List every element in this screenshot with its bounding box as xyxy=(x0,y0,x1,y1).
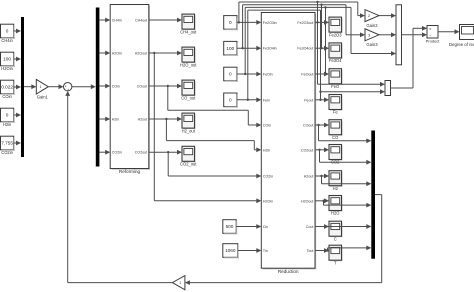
svg-text:CO2out: CO2out xyxy=(301,148,313,152)
svg-text:Feout: Feout xyxy=(304,98,313,102)
svg-text:H2Oin: H2Oin xyxy=(112,52,122,56)
svg-text:H2Oin: H2Oin xyxy=(263,199,273,203)
wire Product to Display xyxy=(438,29,460,34)
svg-text:CO: CO xyxy=(332,135,338,140)
sum Sum xyxy=(63,83,71,93)
constant H2Oin value 100 xyxy=(1,52,15,71)
wire H2Oout to Mux3 xyxy=(324,201,372,208)
svg-text:H2: H2 xyxy=(333,186,339,191)
svg-text:FeOin: FeOin xyxy=(263,73,273,77)
svg-text:CO2_out: CO2_out xyxy=(180,162,197,167)
svg-text:Gain3: Gain3 xyxy=(366,42,378,47)
gain feedback Gain xyxy=(172,276,185,290)
wire Cout to scope xyxy=(315,224,329,229)
constant 0 into FeOin xyxy=(224,67,239,82)
svg-text:H2in: H2in xyxy=(3,122,12,127)
display Degree of reduction xyxy=(449,25,474,47)
wire H2Oout to scope xyxy=(315,198,329,203)
scope CO2_out xyxy=(180,146,197,166)
svg-text:Tin: Tin xyxy=(263,249,268,253)
svg-text:CO2in: CO2in xyxy=(263,175,273,179)
svg-text:H2O: H2O xyxy=(331,211,339,216)
svg-text:COout: COout xyxy=(137,85,147,89)
svg-text:Tout: Tout xyxy=(307,249,314,253)
scope Fe xyxy=(329,95,343,115)
svg-text:3: 3 xyxy=(368,33,370,37)
scope CO xyxy=(329,120,343,140)
wire v3 FeOout up xyxy=(325,7,327,74)
mux Mux3 (output bar) xyxy=(371,131,375,259)
wire CO2out net xyxy=(149,150,261,179)
scope T xyxy=(329,245,343,265)
svg-text:Gain2: Gain2 xyxy=(366,23,378,28)
svg-text:Reforming: Reforming xyxy=(119,169,141,174)
wire FeOout to scope xyxy=(315,72,329,77)
wire rail2 Fe3O4 net xyxy=(243,3,365,48)
wire Tout to Mux3 xyxy=(328,246,372,251)
wire constant to Fein xyxy=(237,97,261,102)
constant COin value 0.022 xyxy=(1,80,15,99)
wire constant to FeOin xyxy=(237,72,261,77)
wire Gain3 to Mux2 xyxy=(379,32,396,37)
svg-text:100: 100 xyxy=(3,57,11,62)
svg-text:0: 0 xyxy=(6,113,9,118)
scope Fe2O3 xyxy=(329,17,343,37)
svg-text:Fe2O3in: Fe2O3in xyxy=(263,21,277,25)
subsystem Reforming xyxy=(110,5,150,174)
svg-text:H2Oout: H2Oout xyxy=(301,199,313,203)
wire Gain1 to Sum xyxy=(48,84,63,89)
svg-text:Reduction: Reduction xyxy=(278,269,299,274)
svg-text:FeOout: FeOout xyxy=(301,73,313,77)
scope CH4_out xyxy=(180,14,197,34)
wire Demux to Reforming CH4in xyxy=(99,18,110,23)
wire Demux to Reforming CO2in xyxy=(99,150,110,155)
svg-text:COin: COin xyxy=(112,85,120,89)
constant CH4in value 0 xyxy=(1,24,15,43)
svg-text:COin: COin xyxy=(263,124,271,128)
svg-text:Cin: Cin xyxy=(263,225,268,229)
svg-text:H2out: H2out xyxy=(304,175,314,179)
wire CH4out to scope xyxy=(149,18,182,23)
svg-text:0: 0 xyxy=(229,97,232,102)
wire H2out to Mux3 xyxy=(322,176,372,186)
mux Mux2 xyxy=(396,5,402,65)
wire COin to Mux xyxy=(14,85,21,90)
svg-text:0: 0 xyxy=(229,72,232,77)
svg-text:CO2in: CO2in xyxy=(112,151,122,155)
scope FeO xyxy=(329,69,343,89)
svg-text:CO2in: CO2in xyxy=(1,150,13,155)
svg-text:Fe3O4: Fe3O4 xyxy=(329,58,342,63)
svg-text:Fe2O3out: Fe2O3out xyxy=(297,21,313,25)
wire v2 Fe3O4out up xyxy=(321,5,323,49)
svg-text:C: C xyxy=(334,236,337,241)
svg-text:H2in: H2in xyxy=(112,118,119,122)
wire rail3 FeO net xyxy=(245,6,396,74)
scope H2_out xyxy=(182,113,196,133)
wire rail4 Fe net xyxy=(248,10,385,100)
wire COout to Mux3 xyxy=(319,125,372,143)
wire Mux3 to feedback xyxy=(185,195,382,285)
scope C xyxy=(329,221,343,241)
svg-text:H2out: H2out xyxy=(138,118,148,122)
constant 100 into Fe3O4in xyxy=(224,41,239,56)
wire Tout to scope xyxy=(315,248,329,253)
wire Feout to scope xyxy=(315,97,329,102)
gain Gain2 xyxy=(365,10,379,28)
wire Demux to Reforming COin xyxy=(99,84,110,89)
svg-text:CH4out: CH4out xyxy=(135,19,147,23)
wire v1 Fe2O3out to Mux1 xyxy=(318,2,386,87)
svg-text:Fe2O3: Fe2O3 xyxy=(329,32,342,37)
wire CH4in to Mux xyxy=(14,29,21,34)
scope Fe3O4 xyxy=(329,43,343,63)
svg-text:Degree of reduction: Degree of reduction xyxy=(449,42,474,47)
svg-text:Cout: Cout xyxy=(306,225,314,229)
wire H2out net xyxy=(149,117,261,153)
scope H2 xyxy=(329,171,343,191)
svg-text:1: 1 xyxy=(179,281,181,285)
constant H2in value 0 xyxy=(1,108,15,127)
wire Mux2 to Product xyxy=(402,32,428,37)
wire Gain2 to Mux2 xyxy=(379,13,396,18)
svg-text:H2Oout: H2Oout xyxy=(135,52,147,56)
wire Mux1 to Product xyxy=(391,26,428,88)
svg-text:Product: Product xyxy=(426,39,441,44)
scope H2O_out xyxy=(180,47,197,67)
wire Sum to Demux xyxy=(72,84,96,89)
wire Fe3O4out to scope xyxy=(315,46,329,51)
svg-text:Gain1: Gain1 xyxy=(37,94,49,99)
wire COout to scope xyxy=(315,123,329,128)
svg-text:Fe3O4in: Fe3O4in xyxy=(263,47,277,51)
svg-text:0: 0 xyxy=(6,29,9,34)
svg-text:100: 100 xyxy=(226,46,234,51)
svg-text:H2_out: H2_out xyxy=(182,128,196,133)
demux Demux (before Reforming) xyxy=(96,8,100,167)
product Product xyxy=(426,26,441,44)
svg-text:Fe3O4out: Fe3O4out xyxy=(297,47,313,51)
svg-text:CH4in: CH4in xyxy=(1,38,13,43)
svg-text:0: 0 xyxy=(229,20,232,25)
svg-text:H2in: H2in xyxy=(263,148,270,152)
mux Mux (input mux bar) xyxy=(21,17,24,157)
wire feedback to Sum xyxy=(65,91,172,283)
wire CO2out to Mux3 xyxy=(320,150,372,165)
wire Mux to Gain1 xyxy=(24,84,36,89)
svg-text:CO_out: CO_out xyxy=(181,95,196,100)
constant 0 into Fein xyxy=(224,93,239,108)
svg-text:CH4_out: CH4_out xyxy=(180,29,197,34)
wire H2in to Mux xyxy=(14,113,21,118)
scope H2O xyxy=(329,196,343,216)
constant 500 into Cin xyxy=(223,220,238,235)
svg-text:x: x xyxy=(429,27,431,31)
constant CO2in value 7.755 xyxy=(1,136,15,155)
wire CO2out to scope xyxy=(315,147,329,152)
wire CO2in to Mux xyxy=(14,141,21,146)
wire H2out to scope xyxy=(315,174,329,179)
wire Demux to Reforming H2Oin xyxy=(99,51,110,56)
svg-text:COout: COout xyxy=(303,124,313,128)
wire rail1 Fe2O3 net xyxy=(239,1,365,23)
gain Gain3 xyxy=(365,29,379,47)
gain Gain1 xyxy=(36,79,48,99)
svg-text:CO2out: CO2out xyxy=(135,151,147,155)
subsystem Reduction xyxy=(261,13,316,274)
svg-text:2: 2 xyxy=(368,14,370,18)
wire COout net xyxy=(149,84,261,128)
svg-text:÷: ÷ xyxy=(429,34,431,38)
wire Cout to Mux3 xyxy=(326,224,372,229)
wire H2Oin to Mux xyxy=(14,57,21,62)
svg-text:1060: 1060 xyxy=(225,248,236,253)
svg-text:7.755: 7.755 xyxy=(1,141,13,146)
wire constant to Fe2O3in xyxy=(237,20,261,25)
svg-text:0.022: 0.022 xyxy=(1,85,13,90)
wire constant to Fe3O4in xyxy=(237,46,261,51)
wire Demux to Reforming H2in xyxy=(99,117,110,122)
constant 1060 into Tin xyxy=(223,244,239,259)
constant 0 into Fe2O3in xyxy=(224,16,239,31)
svg-text:H2Oin: H2Oin xyxy=(1,66,13,71)
scope CO_out xyxy=(181,80,196,100)
wire H2Oout net xyxy=(149,51,261,204)
svg-text:CH4in: CH4in xyxy=(112,19,122,23)
mux Mux1 xyxy=(385,81,391,96)
svg-text:H2O_out: H2O_out xyxy=(180,62,197,67)
svg-text:COin: COin xyxy=(2,94,12,99)
svg-text:Fein: Fein xyxy=(263,98,270,102)
svg-text:Fe: Fe xyxy=(333,110,339,115)
scope CO2 xyxy=(329,145,343,165)
wire 500 to Cin xyxy=(236,224,261,229)
svg-text:1: 1 xyxy=(40,85,42,89)
wire 1060 to Tin xyxy=(238,248,261,253)
wire Fe2O3out to scope xyxy=(315,20,329,25)
svg-text:500: 500 xyxy=(226,224,234,229)
